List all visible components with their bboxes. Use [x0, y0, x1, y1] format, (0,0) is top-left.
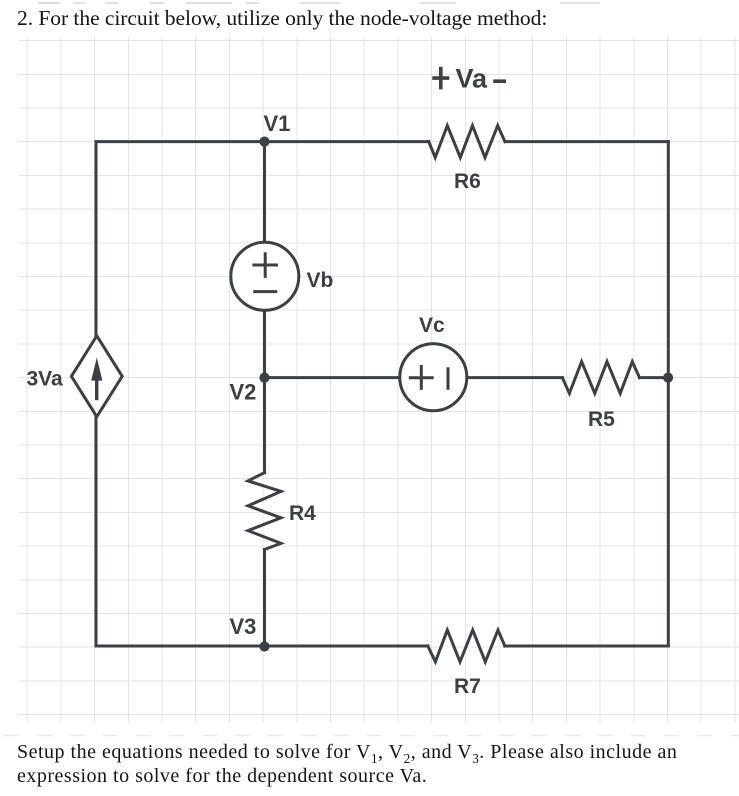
wire: R5 to right node — [640, 376, 669, 379]
Vc bar — [447, 369, 450, 389]
svg-text:V2: V2 — [230, 380, 257, 405]
voltage source Vc (circle) — [400, 344, 467, 411]
voltage source Vb (circle) — [231, 242, 299, 310]
svg-text:R4: R4 — [289, 502, 316, 525]
node right middle — [663, 373, 673, 383]
svg-text:Vb: Vb — [307, 269, 334, 292]
svg-text:R5: R5 — [588, 408, 615, 431]
node dots — [259, 137, 673, 652]
dependent current source 3Va (diamond) — [71, 336, 122, 417]
resistor R6 — [429, 126, 505, 158]
faint page-break dashes — [4, 735, 739, 737]
resistor R4 — [248, 473, 281, 550]
svg-text:V3: V3 — [230, 614, 257, 639]
resistor R5 — [562, 362, 639, 394]
svg-text:V1: V1 — [264, 111, 291, 136]
Vb plus sign — [254, 264, 277, 267]
title text — [17, 3, 547, 33]
wire: R6 to top-right corner — [505, 140, 668, 143]
Va annotation plus sign — [434, 76, 447, 80]
wire: top-left V1 to R6 — [96, 140, 429, 143]
wire: Vc to R5 — [467, 376, 563, 379]
wire: R4 to V3 — [263, 550, 266, 647]
svg-text:R7: R7 — [454, 675, 481, 698]
resistor R7 — [428, 630, 505, 662]
bottom instruction text — [17, 741, 723, 788]
wire: left side upper — [95, 142, 98, 336]
wire: middle column V1 to Vb — [263, 142, 266, 243]
Vb minus sign — [255, 290, 276, 293]
svg-text:Va: Va — [456, 64, 489, 94]
svg-text:3Va: 3Va — [27, 368, 64, 391]
wire: left side lower — [95, 417, 98, 647]
Vc plus sign — [410, 376, 432, 379]
svg-text:Vc: Vc — [419, 314, 445, 337]
wire: right side — [667, 142, 670, 646]
arrow of dependent source — [91, 358, 102, 401]
node V3 — [259, 641, 269, 651]
cropped remnants of previous text line at top edge — [0, 0, 739, 6]
node V1 — [259, 137, 269, 147]
svg-text:R6: R6 — [454, 170, 481, 193]
wire: V2 to Vc — [265, 376, 401, 379]
wire: R7 to bottom-right corner — [505, 645, 669, 648]
wire: Vb to R4 (through V2) — [263, 310, 266, 472]
wire: bottom-left to R7 (through V3) — [96, 645, 428, 648]
Va annotation minus sign — [495, 79, 504, 83]
node V2 — [259, 373, 269, 383]
